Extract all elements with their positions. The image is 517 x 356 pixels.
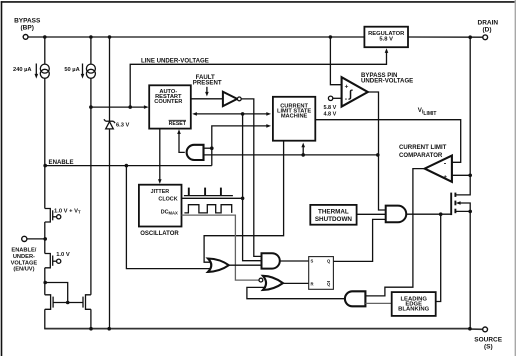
comparator BPUV <box>330 37 341 85</box>
junction enable riser / gate F input <box>210 146 214 150</box>
svg-text:(BP): (BP) <box>21 25 34 32</box>
node DRAIN terminal <box>483 35 488 40</box>
svg-text:SHUTDOWN: SHUTDOWN <box>315 216 353 223</box>
svg-text:VOLTAGE: VOLTAGE <box>11 260 38 266</box>
svg-text:RESET: RESET <box>169 121 187 127</box>
svg-text:SOURCE: SOURCE <box>474 336 502 343</box>
oscillator box <box>139 185 182 227</box>
svg-text:UNDER-VOLTAGE: UNDER-VOLTAGE <box>361 78 413 85</box>
transistor Q3 mirror left <box>45 295 53 310</box>
junction gate drive / LEB input <box>439 212 443 216</box>
transistor Q4 mirror right <box>83 295 91 310</box>
svg-text:1.0 V: 1.0 V <box>56 252 70 258</box>
gate F reset AND (points left) <box>187 145 204 160</box>
gate OR A <box>208 259 229 272</box>
inverter U-INV <box>223 92 237 106</box>
junction EN/UV terminal wire <box>43 237 47 241</box>
svg-text:5.8 V: 5.8 V <box>379 36 393 42</box>
wire gate F top input <box>204 147 212 149</box>
svg-text:240 µA: 240 µA <box>13 67 31 73</box>
svg-text:R: R <box>311 281 314 286</box>
junction mirror gate tie <box>66 301 70 305</box>
regulator U-REG box <box>364 27 408 48</box>
current source 50uA <box>83 64 96 79</box>
wire zener vertical <box>109 37 111 121</box>
wire BPUV output <box>368 92 386 210</box>
wire TS output <box>357 213 386 215</box>
wire AND E output to gate of MOSFET <box>406 213 451 215</box>
wire clock net vertical <box>243 114 262 261</box>
wire 50uA branch vertical <box>90 37 92 64</box>
latch SR box <box>309 257 334 290</box>
svg-text:DRAIN: DRAIN <box>478 19 499 26</box>
wire comparator output to gate D <box>366 169 425 296</box>
wire 240uA branch vertical <box>44 37 46 64</box>
wire EN/UV vertical lower <box>44 222 46 254</box>
wire enable riser to CLSM <box>212 126 267 166</box>
wire gate F bottom input / BPUV ok line <box>204 154 378 156</box>
wire latch Q to AND E <box>333 219 385 261</box>
node EN/UV terminal <box>22 236 27 241</box>
svg-text:S: S <box>311 258 314 263</box>
wire ARC bottom to oscillator <box>159 129 161 182</box>
svg-text:4.8 V: 4.8 V <box>323 112 336 118</box>
junction comparator + input / drain vertical <box>468 174 472 178</box>
svg-text:+: + <box>443 174 447 181</box>
junction BP rail / BPUV comparator input <box>329 35 333 39</box>
wire ARC to inverter <box>191 98 223 100</box>
wire OR C output to latch R <box>283 282 309 284</box>
junction source rail / 50uA branch <box>89 327 93 331</box>
junction source rail / MOSFET source <box>468 327 472 331</box>
svg-text:50 µA: 50 µA <box>64 67 79 73</box>
svg-text:MACHINE: MACHINE <box>281 114 308 120</box>
border frame left <box>1 1 3 356</box>
junction BP rail / 240uA branch <box>43 35 47 39</box>
jitter waveform <box>184 188 233 196</box>
wire comparator + input to drain <box>453 174 471 176</box>
svg-text:PRESENT: PRESENT <box>193 80 222 87</box>
svg-text:JITTER: JITTER <box>151 189 170 195</box>
junction BPUV line / CLSM bottom arrow <box>301 153 305 157</box>
junction line under-voltage riser <box>128 105 132 109</box>
node BYPASS terminal <box>23 35 28 40</box>
gate D leb AND (points left) <box>345 291 366 306</box>
transistor M1 power MOSFET <box>451 193 455 216</box>
svg-text:OSCILLATOR: OSCILLATOR <box>140 231 179 237</box>
border frame right <box>514 0 516 356</box>
comparator current limit <box>425 156 452 182</box>
transistor Q1 sense 1.0V+VT <box>45 209 57 223</box>
wire LEB output to gate D (gray) <box>365 302 391 304</box>
svg-text:CURRENT LIMIT: CURRENT LIMIT <box>399 144 447 151</box>
wire V-ILIMIT <box>315 120 460 163</box>
junction source rail / zener branch <box>107 327 111 331</box>
svg-text:COUNTER: COUNTER <box>154 99 182 105</box>
wire OR C lower input from gate D <box>247 287 345 298</box>
junction handshake line / clock vertical <box>241 112 245 116</box>
svg-text:LINE UNDER-VOLTAGE: LINE UNDER-VOLTAGE <box>141 58 209 65</box>
wire gate F output to RESET <box>179 132 185 153</box>
junction BPUV line / BPUV output vertical <box>376 153 380 157</box>
svg-text:ENABLE: ENABLE <box>49 159 74 166</box>
wire line under-voltage net <box>91 106 145 108</box>
dcmax waveform <box>184 205 231 213</box>
svg-text:6.3 V: 6.3 V <box>116 122 129 128</box>
transistor Q2 sense 1.0V <box>45 254 57 268</box>
junction BP rail / 50uA branch <box>89 35 93 39</box>
wire CLSM bottom path to OR A <box>204 141 284 263</box>
svg-text:5.8 V: 5.8 V <box>323 105 336 111</box>
wire dcmax output (gray) to OR C bubble <box>182 215 259 280</box>
node SOURCE terminal <box>483 327 488 332</box>
svg-text:1.0 V + VT: 1.0 V + VT <box>54 209 81 215</box>
wire LEB input from gate line <box>436 214 441 301</box>
svg-text:(D): (D) <box>482 27 491 34</box>
wire ARC-CLSM handshake line <box>195 113 268 115</box>
svg-text:ENABLE/: ENABLE/ <box>11 248 36 254</box>
wire CLSM bottom up-arrow <box>302 145 304 155</box>
wire clock output <box>182 197 243 199</box>
thermal shutdown box <box>310 205 356 225</box>
gate OR C with bubble <box>259 278 263 282</box>
wire mirror gate tie <box>45 283 83 303</box>
junction clock output / clock vertical <box>241 197 245 201</box>
gate AND E driver <box>386 206 407 223</box>
wire BP top rail <box>28 36 364 38</box>
auto-restart counter box <box>149 85 191 128</box>
wire OR A output to AND B <box>229 264 262 266</box>
svg-text:BLANKING: BLANKING <box>398 307 430 313</box>
svg-text:CLOCK: CLOCK <box>158 197 177 203</box>
junction 50uA branch / line under-voltage <box>89 105 93 109</box>
wire inverter output down to AND B <box>241 99 261 257</box>
leading edge blanking box <box>392 292 436 316</box>
gate AND B <box>262 253 280 268</box>
junction enable line / left vertical <box>43 164 47 168</box>
svg-text:BYPASS: BYPASS <box>14 18 41 25</box>
svg-text:THERMAL: THERMAL <box>318 209 349 216</box>
current limit state machine box <box>273 97 315 141</box>
junction enable line / OR A branch <box>125 164 129 168</box>
border frame top <box>1 1 515 3</box>
current source 240uA <box>36 64 49 79</box>
junction BP rail / zener branch <box>108 35 112 39</box>
svg-text:COMPARATOR: COMPARATOR <box>399 152 443 159</box>
svg-text:UNDER-: UNDER- <box>13 254 35 260</box>
wire enable branch down to OR gate <box>126 166 210 269</box>
wire ENABLE line <box>45 165 212 167</box>
junction MOSFET source lead / body tie <box>468 210 472 214</box>
wire source bottom rail <box>45 328 470 330</box>
junction BP rail / drain vertical <box>468 35 472 39</box>
svg-text:(EN/UV): (EN/UV) <box>13 267 34 273</box>
zener diode 6.3V <box>104 119 115 129</box>
svg-text:(S): (S) <box>484 344 493 351</box>
junction mirror diode tie top <box>43 281 47 285</box>
wire AND B output to latch S <box>280 260 309 262</box>
svg-text:DCMAX: DCMAX <box>161 209 178 215</box>
